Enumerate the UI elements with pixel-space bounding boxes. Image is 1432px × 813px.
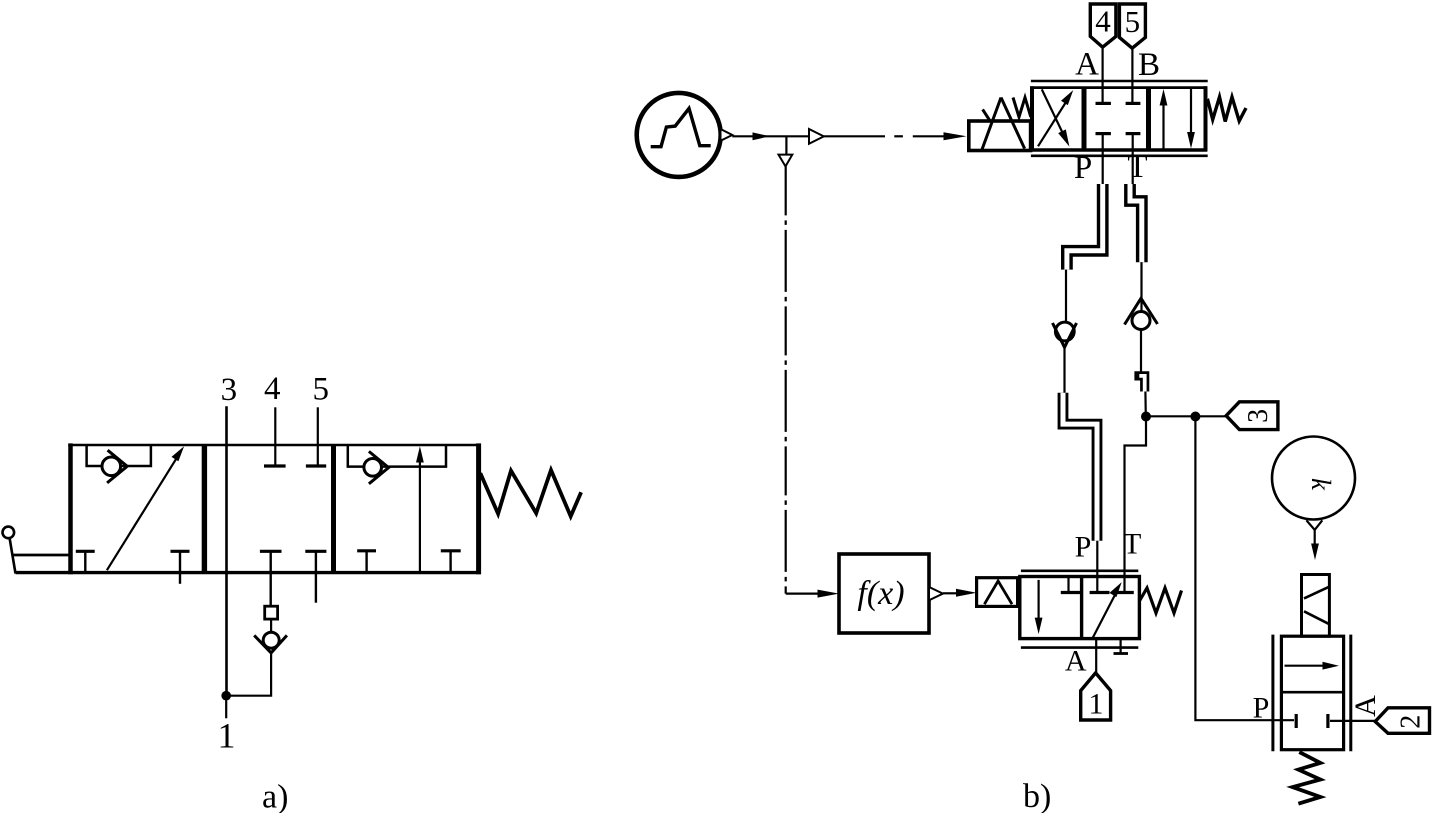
port 4 line	[274, 407, 276, 466]
wire pipe to V3 port P	[1096, 541, 1098, 592]
tag 4	[1090, 4, 1116, 47]
svg-text:4: 4	[264, 371, 281, 407]
square 3 flow arrow (vertical up)	[416, 446, 424, 572]
square 1 check valve	[102, 450, 127, 483]
branch port triangle (down)	[779, 155, 793, 167]
wire port P down	[1102, 134, 1104, 186]
svg-text:T: T	[1127, 149, 1147, 185]
svg-text:b): b)	[1023, 778, 1051, 813]
check valve below valve V1	[254, 632, 287, 653]
V3 blocked drain stub	[1114, 639, 1129, 654]
V4 body outline	[1281, 636, 1343, 750]
wire orifice to check valve	[270, 619, 272, 632]
dash-dot branch line down to f(x)	[786, 166, 839, 597]
V4 right rail	[1349, 635, 1352, 752]
V4 port A tick	[1326, 714, 1329, 728]
V2 right spring	[1206, 97, 1247, 122]
V2 middle square blocked port P	[1096, 132, 1111, 135]
V3 solenoid	[977, 578, 1018, 607]
signal generator G1	[637, 93, 721, 177]
square 3 blocked port left	[357, 551, 376, 573]
check valve CV2 (T branch)	[1125, 298, 1158, 329]
V3 right square blocked port P	[1090, 591, 1110, 594]
V3 bottom rail	[1021, 646, 1138, 649]
V4 left rail	[1271, 635, 1274, 752]
check valve CV1 (P branch)	[1053, 322, 1077, 347]
small hollow jog on T branch	[1134, 376, 1144, 392]
tag 3	[1226, 402, 1278, 430]
lever actuator	[3, 527, 71, 574]
square 3 blocked port right	[441, 551, 461, 573]
svg-text:P: P	[1075, 531, 1092, 564]
V2 right square down arrow	[1187, 89, 1195, 149]
port 5 line	[317, 407, 319, 466]
V4 top square right arrow	[1285, 662, 1340, 670]
tag 5	[1119, 4, 1145, 48]
svg-text:5: 5	[1125, 4, 1141, 39]
hollow pipe Z to bottom valve P	[1063, 393, 1097, 541]
output port triangle of f(x)	[929, 587, 943, 600]
V2 top rail	[1031, 80, 1208, 83]
hollow pipe from P (elbow left)	[1067, 184, 1103, 270]
tag 1	[1081, 673, 1111, 720]
output port triangle of G1	[721, 129, 733, 141]
wire G1 to junction	[732, 135, 809, 137]
node N1 junction dot	[1141, 412, 1151, 422]
wire node N2 down to valve V4 port P	[1195, 417, 1294, 721]
V3 right square blocked port T	[1114, 591, 1134, 594]
wire CV1 down	[1063, 347, 1065, 393]
wire pipe to check valve CV1	[1065, 270, 1067, 323]
svg-text:k: k	[1306, 478, 1336, 491]
V3 top rail	[1021, 569, 1138, 572]
wire f(x) to solenoid of V3	[943, 589, 977, 597]
V4 bottom spring	[1293, 752, 1321, 804]
V4 port P tick	[1295, 714, 1298, 728]
V3 left square down arrow	[1035, 580, 1043, 634]
wire tag4 to port A	[1101, 47, 1103, 103]
V2 middle square blocked port B	[1126, 102, 1141, 105]
V4 divider	[1281, 691, 1343, 694]
node N2 junction dot	[1190, 412, 1200, 422]
square 3 pilot bracket	[348, 445, 446, 467]
V4 solenoid (vertical)	[1302, 575, 1330, 637]
square 3 check valve	[364, 451, 389, 483]
svg-text:2: 2	[1396, 715, 1427, 729]
square 1 pilot bracket	[87, 445, 151, 466]
wire port T down	[1132, 134, 1134, 186]
V3 left square blocked port	[1061, 578, 1081, 593]
wire T branch to check valve CV2	[1140, 262, 1142, 311]
svg-text:3: 3	[221, 372, 238, 408]
V2 bottom rail	[1031, 155, 1208, 158]
square 2 blocked port top B	[306, 464, 326, 467]
square 1 blocked port right	[171, 551, 190, 584]
tag 2	[1375, 708, 1429, 734]
orifice (small square) below valve V1	[265, 606, 278, 619]
svg-text:A: A	[1349, 695, 1382, 717]
svg-text:A: A	[1065, 645, 1087, 678]
V3 right spring	[1139, 588, 1181, 613]
valve V1 divider 2	[331, 445, 336, 573]
wire tag5 to port B	[1131, 48, 1133, 103]
V3 divider	[1080, 577, 1083, 639]
V3 body outline	[1020, 577, 1140, 639]
V3 right square diagonal arrow	[1093, 582, 1122, 637]
square 2 blocked port bottom P	[260, 551, 282, 606]
function generator block f(x)	[839, 554, 929, 633]
port 3 line (passes through valve)	[225, 406, 228, 695]
branch stub down from junction	[785, 136, 787, 154]
svg-text:P: P	[1253, 692, 1270, 725]
amplifier triangle on main line	[809, 129, 824, 144]
V4 port A wire to tag 2	[1330, 720, 1375, 722]
svg-text:P: P	[1074, 150, 1092, 186]
dash-dot control line to pilot valve solenoid	[824, 132, 967, 140]
V2 left square crossed arrows	[1038, 89, 1073, 146]
wire jog to node N1	[1144, 392, 1147, 417]
V2 divider 2	[1146, 88, 1151, 150]
V2 middle square blocked port A	[1096, 102, 1111, 105]
svg-text:T: T	[1123, 527, 1141, 560]
svg-text:a): a)	[262, 778, 288, 813]
arrowhead on wire	[753, 132, 770, 140]
svg-text:A: A	[1075, 47, 1099, 83]
square 1 blocked port left	[76, 551, 95, 572]
svg-text:3: 3	[1243, 409, 1274, 423]
wire CV2 down	[1140, 330, 1142, 373]
wire node N1 to tag 3	[1146, 415, 1226, 417]
svg-text:f(x): f(x)	[857, 575, 904, 612]
funnel below k circle	[1306, 520, 1322, 530]
square 2 blocked port bottom T	[305, 551, 326, 602]
k circle (pressure command)	[1272, 437, 1355, 520]
wire below node 1	[225, 696, 227, 719]
V2 proportional solenoid with spring	[969, 98, 1031, 151]
square 2 blocked port top A	[264, 464, 286, 467]
svg-text:1: 1	[1089, 688, 1104, 721]
V3 port A wire	[1095, 639, 1097, 673]
V2 divider 1	[1082, 88, 1087, 150]
svg-text:B: B	[1138, 47, 1160, 83]
svg-text:5: 5	[312, 371, 329, 407]
valve V1 body outline	[16, 443, 481, 574]
node 1 junction dot	[221, 691, 231, 701]
valve V1 divider 1	[202, 445, 207, 573]
svg-text:1: 1	[218, 716, 236, 756]
hollow pipe from T (jog right)	[1130, 184, 1142, 262]
V2 right square up arrow	[1160, 89, 1168, 149]
square 1 flow arrow (diagonal)	[107, 446, 184, 570]
svg-text:4: 4	[1095, 4, 1111, 39]
wire check valve down and left to node 1	[226, 653, 271, 696]
wire node N1 down to valve V3 port T	[1125, 417, 1147, 593]
V2 middle square blocked port T	[1126, 132, 1141, 135]
V2 body outline	[1031, 86, 1208, 151]
arrow k to solenoid	[1311, 530, 1319, 560]
spring of valve V1	[480, 470, 581, 516]
